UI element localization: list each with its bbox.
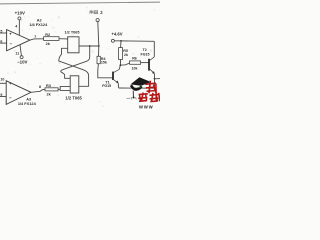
- wire output pin8 of A3: [31, 89, 45, 92]
- +4.6V supply terminal: [111, 32, 122, 43]
- svg-text:11: 11: [15, 51, 19, 55]
- transistor T1: [102, 66, 120, 88]
- +10V supply terminal: [15, 11, 25, 20]
- wire pin5 input: [0, 32, 7, 34]
- svg-text:+: +: [9, 31, 12, 36]
- resistor R3: [45, 84, 58, 96]
- junction node: [120, 64, 122, 66]
- svg-text:1/2 T065: 1/2 T065: [65, 30, 80, 34]
- resistor R2: [44, 33, 59, 46]
- wire upper box right pin to node: [79, 45, 99, 47]
- svg-text:15k: 15k: [101, 61, 107, 65]
- watermark graduation cap: [131, 77, 151, 98]
- wire pin10 input: [0, 82, 6, 84]
- transistor T2: [141, 41, 155, 79]
- svg-text:6: 6: [0, 39, 2, 43]
- wire pin4 of A2: [18, 20, 20, 36]
- wire R3 to lower box pins: [58, 86, 70, 90]
- junction node: [89, 45, 91, 47]
- svg-text:R6: R6: [132, 56, 137, 60]
- wire R4 to T1 base: [98, 64, 113, 78]
- svg-text:www: www: [138, 104, 154, 110]
- wire R5 bottom to junction: [119, 60, 121, 66]
- wire pin11 of A2: [20, 45, 21, 56]
- svg-text:+10V: +10V: [15, 11, 25, 16]
- svg-text:9: 9: [0, 93, 2, 97]
- svg-text:10k: 10k: [132, 67, 138, 71]
- watermark gray marks: [127, 97, 137, 100]
- svg-text:8: 8: [39, 85, 41, 89]
- op-amp A2: [7, 18, 49, 50]
- junction node: [98, 45, 100, 47]
- top figure border line: [0, 2, 160, 4]
- svg-text:−10V: −10V: [17, 60, 27, 65]
- wire pin9 input: [0, 96, 6, 98]
- wire pin6 input: [0, 42, 7, 44]
- svg-text:+4.6V: +4.6V: [111, 32, 122, 37]
- svg-text:R3: R3: [46, 84, 51, 88]
- resistor R4: [97, 46, 107, 65]
- svg-text:5: 5: [0, 29, 2, 33]
- wire output pin7 of A2: [30, 39, 44, 40]
- svg-text:1/4 FX124: 1/4 FX124: [18, 101, 37, 106]
- watermark red characters: [138, 81, 159, 102]
- output 2 terminal: [90, 10, 104, 22]
- resistor R6: [120, 56, 140, 70]
- svg-text:10: 10: [0, 77, 4, 81]
- transformer 1/2 T065 (upper box): [65, 30, 80, 52]
- junction node: [154, 78, 156, 80]
- wire lower box upper-left pin cross-coupling to junction node: [61, 46, 90, 78]
- svg-text:+: +: [9, 81, 12, 86]
- wire common emitter line: [119, 87, 155, 89]
- wire emitter node to right edge: [155, 78, 161, 80]
- svg-text:−: −: [9, 42, 12, 47]
- svg-text:1/2 T065: 1/2 T065: [65, 96, 82, 101]
- wire T2 emitter down: [154, 79, 156, 88]
- svg-text:7: 7: [34, 35, 36, 39]
- wire +4.6V rail: [114, 40, 154, 43]
- op-amp A3: [6, 81, 36, 106]
- wire R2 to transformer box: [59, 38, 68, 40]
- junction node: [120, 40, 122, 42]
- svg-text:2k: 2k: [124, 53, 128, 57]
- paper scan noise: [5, 7, 156, 108]
- wire upper box lower-left pin cross-coupling to lower box right pin: [59, 48, 89, 86]
- svg-text:FG15: FG15: [141, 52, 150, 56]
- -10V supply terminal: [17, 56, 27, 65]
- wire R6 to T2 base: [141, 62, 149, 64]
- transformer 1/2 T065 (lower box): [65, 76, 82, 101]
- resistor R5: [119, 41, 128, 60]
- wire output2 down to node: [98, 22, 99, 46]
- svg-text:−: −: [9, 96, 12, 101]
- svg-text:FG15: FG15: [102, 84, 111, 88]
- svg-text:R2: R2: [45, 33, 50, 37]
